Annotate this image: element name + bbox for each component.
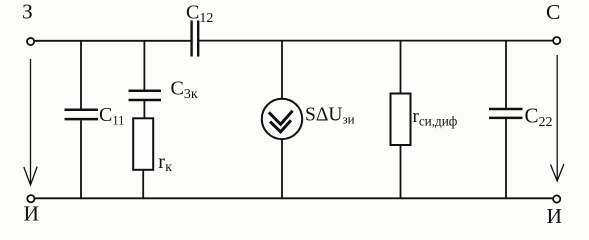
svg-text:SΔUзи: SΔUзи <box>305 104 355 126</box>
current source chevron lower <box>270 120 291 132</box>
capacitor C22 <box>489 109 523 118</box>
wire: C11 branch lower lead <box>80 120 82 198</box>
wire: C3к to r_к <box>143 101 145 118</box>
svg-text:И: И <box>24 201 40 225</box>
svg-text:З: З <box>22 0 33 24</box>
resistor r_си,диф <box>391 94 411 146</box>
svg-text:C11: C11 <box>99 104 124 128</box>
svg-text:C22: C22 <box>525 103 553 130</box>
right voltage arrow shaft <box>556 55 558 181</box>
wire top: left terminal to C12 left plate <box>34 40 191 42</box>
wire: C3к branch upper lead <box>143 41 145 90</box>
svg-text:rк: rк <box>158 151 172 174</box>
terminal И (source, bottom-left) <box>27 195 34 202</box>
wire: current source lower lead <box>281 139 283 198</box>
wire: C22 branch upper lead <box>505 41 507 108</box>
svg-text:rси,диф: rси,диф <box>413 106 458 129</box>
bottom wire <box>35 197 553 199</box>
wire: r_к lower lead <box>142 170 144 199</box>
wire: C22 branch lower lead <box>505 119 507 198</box>
svg-text:И: И <box>547 204 563 228</box>
capacitor C12 (series in top wire) <box>192 21 199 57</box>
wire: r_си,диф upper lead <box>400 41 402 94</box>
wire: current source upper lead <box>281 41 283 99</box>
wire: C11 branch upper lead <box>80 41 82 109</box>
terminal З (gate, top-left) <box>27 38 34 45</box>
capacitor C3к <box>129 91 162 100</box>
terminal С (drain, top-right) <box>553 37 560 44</box>
wire: r_си,диф lower lead <box>400 145 402 198</box>
svg-text:С: С <box>546 0 560 24</box>
current source U1 circle <box>262 99 302 139</box>
svg-text:C12: C12 <box>186 1 213 26</box>
wire top: C12 right plate to right terminal <box>199 40 553 42</box>
resistor r_к <box>133 118 153 170</box>
left voltage arrow shaft <box>24 55 564 185</box>
capacitor C11 <box>65 110 99 119</box>
left voltage arrowhead <box>24 167 37 186</box>
right voltage arrowhead <box>551 164 564 181</box>
current source chevron upper <box>269 111 293 125</box>
svg-text:C3к: C3к <box>171 77 198 102</box>
terminal И (source, bottom-right) <box>553 195 560 202</box>
